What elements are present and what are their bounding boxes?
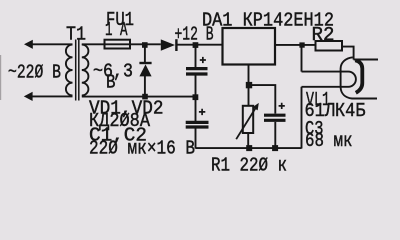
wire: VD2 branch column (144, 46, 146, 97)
svg-text:R1 22Ø к: R1 22Ø к (211, 155, 287, 177)
wire: VL1 anode top lead (354, 59, 378, 61)
svg-text:Т1: Т1 (66, 24, 86, 46)
transformer T1 primary winding (66, 45, 73, 96)
wire: secondary bottom lead to C1/C2 midpoint (82, 96, 196, 98)
node: mains top terminal arrowhead (24, 40, 33, 49)
wire: mains top lead (31, 43, 73, 45)
resistor R2 (316, 41, 343, 51)
transformer T1 core (76, 40, 79, 101)
svg-text:+12 В: +12 В (175, 24, 214, 46)
node: mains bottom terminal arrowhead (24, 92, 33, 101)
capacitor C2 (186, 122, 209, 127)
junction: C1/C2 midpoint node (193, 94, 199, 100)
diode VD1 (161, 39, 178, 51)
wire: adjust node to C3 (249, 85, 275, 148)
svg-text:R2: R2 (312, 24, 335, 46)
svg-text:68 мк: 68 мк (305, 130, 353, 152)
wire: C1/C2 filter column (195, 46, 197, 149)
capacitor C3 (264, 115, 286, 120)
wire: output column to heater and ground rail (301, 46, 303, 149)
wire: mains bottom lead (31, 95, 73, 97)
junction: adjust node above R1 (246, 82, 252, 88)
tube VL1 envelope and bottom lead (341, 57, 377, 98)
wire: R1 leads (247, 87, 249, 149)
transformer T1 secondary winding (82, 45, 89, 96)
svg-text:22Ø мк×16 В: 22Ø мк×16 В (89, 138, 195, 160)
junction: C3 on ground rail (272, 145, 278, 151)
wire: R2 to VL1 anode (342, 47, 354, 60)
node: +12V node dot (193, 42, 199, 48)
label: C1 plus polarity mark (200, 57, 206, 63)
label: C3 plus polarity mark (279, 103, 285, 109)
svg-text:~22Ø В: ~22Ø В (8, 62, 61, 84)
capacitor C1 (186, 69, 208, 74)
wire: DA1 output to R2 (275, 44, 316, 46)
wire: ground rail (196, 147, 302, 149)
junction: fuse output / VD2 top node (142, 42, 148, 48)
wire: VD1 cathode to DA1 input (177, 44, 223, 46)
tube VL1 heater filament loop (302, 72, 356, 87)
junction: regulator output node (299, 42, 304, 47)
diode VD2 (139, 62, 151, 77)
tube VL1 anode segment electrode (355, 60, 362, 93)
wire: DA1 adjust pin down (248, 65, 250, 85)
svg-text:В: В (106, 72, 116, 94)
fuse FU1 (105, 40, 131, 49)
junction: R1 on ground rail (246, 145, 252, 151)
label: C2 plus polarity mark (199, 109, 205, 115)
IC DA1 voltage regulator body (223, 28, 276, 65)
scan edge artifact (0, 55, 1, 100)
junction: VD2 anode on secondary return wire (142, 94, 148, 100)
node: R1 adjustment arrow (236, 103, 259, 139)
resistor R1 adjustable body (243, 106, 253, 133)
wire: secondary top lead through fuse to VD1 (82, 43, 161, 45)
svg-text:1 А: 1 А (105, 19, 128, 41)
